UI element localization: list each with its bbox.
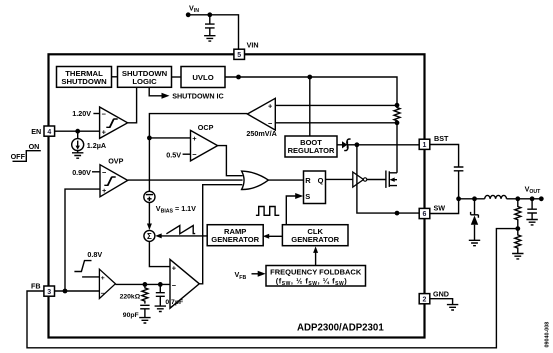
ground input cap — [204, 36, 215, 41]
wire EN pin to comparator plus — [55, 130, 100, 132]
svg-text:R: R — [305, 176, 311, 185]
wire pin1 to bootstrap cap — [430, 145, 459, 168]
block THERMAL SHUTDOWN — [57, 67, 112, 88]
ground output cap — [526, 220, 537, 225]
wire inductor to VOUT — [507, 198, 542, 200]
svg-text:UVLO: UVLO — [192, 73, 213, 82]
wire OR output to R input — [268, 179, 303, 181]
junction feedback divider tap top — [515, 196, 520, 201]
wire logic-UVLO connector — [172, 76, 182, 78]
capacitor input bypass — [205, 15, 215, 36]
wire VIN terminal to pin 5 — [188, 15, 238, 49]
svg-text:5: 5 — [237, 52, 241, 59]
resistor divider bottom — [515, 229, 521, 254]
op-amp OVP comparator — [100, 165, 128, 197]
resistor divider top — [515, 199, 521, 228]
wire OCP plus input — [149, 137, 190, 139]
svg-text:−: − — [172, 281, 177, 290]
ground schottky diode — [469, 240, 480, 245]
resistor 220k — [142, 284, 148, 303]
svg-text:6: 6 — [423, 211, 427, 218]
node VOUT terminal — [539, 196, 544, 201]
svg-text:+: + — [192, 134, 197, 143]
ground GND pin — [447, 305, 458, 310]
wire driver bootstrap rail — [357, 145, 419, 213]
wire ramp generator arrow into summer — [155, 233, 208, 238]
wire OCP output to OR gate — [218, 146, 243, 176]
junction pin5 rail — [236, 75, 241, 80]
junction diode tap — [472, 196, 477, 201]
wire pin6 to SW node — [430, 199, 459, 214]
wire OVP output to OR gate — [128, 179, 243, 181]
wire sense amp minus input — [275, 122, 397, 124]
svg-text:SHUTDOWN: SHUTDOWN — [61, 77, 107, 86]
svg-text:FB: FB — [31, 281, 41, 290]
svg-text:220kΩ: 220kΩ — [120, 293, 141, 300]
wire VIN internal rail — [225, 77, 397, 105]
wire shutdown-ic arrow — [149, 87, 169, 99]
junction input cap tap — [207, 12, 212, 17]
gate OR (3-input) — [242, 171, 269, 189]
wire error amp output to PWM minus — [115, 283, 170, 285]
ground 90pF — [139, 318, 150, 323]
wire EN comparator output to shutdown logic — [128, 87, 137, 123]
svg-text:4: 4 — [47, 129, 51, 136]
svg-text:REGULATOR: REGULATOR — [288, 146, 335, 155]
buffer gate driver — [353, 172, 367, 187]
svg-text:0.90V: 0.90V — [72, 168, 91, 177]
pin 3 FB — [44, 286, 55, 296]
svg-text:GENERATOR: GENERATOR — [211, 235, 259, 244]
junction MOSFET source to SW — [395, 211, 400, 216]
svg-text:1.20V: 1.20V — [72, 109, 91, 118]
svg-text:Σ: Σ — [147, 232, 152, 241]
wire sense amp output to OCP plus — [149, 114, 247, 192]
svg-text:0.5V: 0.5V — [166, 150, 181, 159]
junction OCP plus tap — [147, 136, 152, 141]
current source 1.2uA — [72, 133, 84, 153]
capacitor 90pF — [140, 305, 149, 317]
svg-text:SHUTDOWN IC: SHUTDOWN IC — [172, 91, 224, 100]
node VIN input terminal — [186, 12, 191, 17]
wire SW rail to inductor — [459, 198, 485, 200]
wire thermal-logic connector — [112, 76, 118, 78]
switch off-on step glyph — [13, 151, 41, 162]
wire 0.90V to OVP minus — [92, 171, 100, 173]
capacitor bootstrap — [454, 167, 464, 199]
pin 5 VIN — [234, 49, 245, 59]
block SHUTDOWN LOGIC — [118, 67, 172, 88]
wire BST rail to pin 1 — [357, 144, 419, 146]
wire VFB arrow to foldback — [252, 271, 266, 277]
svg-text:0.7pF: 0.7pF — [165, 299, 183, 306]
pin 1 BST — [419, 139, 430, 149]
block FREQUENCY FOLDBACK — [266, 266, 366, 288]
wire sense line down to MOSFET drain — [396, 123, 398, 173]
ground 0.7pF — [155, 306, 166, 311]
pin 2 GND — [419, 294, 430, 304]
svg-text:+: + — [172, 263, 177, 272]
wire pin2 to ground — [430, 299, 453, 305]
wire 0.5V to OCP minus — [183, 153, 191, 155]
wire 1.20V to EN comparator — [93, 113, 99, 115]
inductor output — [485, 195, 507, 198]
IC boundary ADP2300/ADP2301 — [49, 54, 425, 337]
block RAMP GENERATOR — [207, 225, 263, 246]
wire FB pin to error amp minus — [55, 290, 100, 292]
svg-text:OCP: OCP — [198, 123, 214, 132]
capacitor 0.7pF — [156, 284, 165, 306]
block CLK GENERATOR — [282, 225, 348, 246]
wire FB to OVP plus — [65, 189, 100, 291]
svg-text:LOGIC: LOGIC — [132, 77, 157, 86]
svg-text:−: − — [101, 290, 105, 297]
wire foldback to CLK arrow — [313, 246, 318, 265]
op-amp EN comparator — [100, 107, 128, 138]
wire soft-start to error amp plus — [82, 276, 99, 278]
wire CLK to S input — [286, 193, 303, 225]
wire PWM output to OR gate — [199, 185, 242, 284]
junction 0.7pF branch — [158, 282, 163, 287]
junction 1.2uA tap — [75, 129, 80, 134]
svg-text:−: − — [102, 168, 107, 177]
svg-text:ON: ON — [29, 142, 40, 151]
svg-text:1: 1 — [423, 142, 427, 149]
svg-text:+: + — [102, 128, 107, 137]
svg-text:90pF: 90pF — [123, 312, 139, 319]
junction boot-reg rail — [307, 75, 312, 80]
svg-text:2: 2 — [423, 296, 427, 303]
svg-text:OFF: OFF — [11, 152, 26, 161]
svg-text:GENERATOR: GENERATOR — [291, 235, 339, 244]
svg-text:09040-008: 09040-008 — [545, 322, 551, 348]
svg-text:OVP: OVP — [108, 157, 123, 166]
junction BST driver rail — [355, 142, 360, 147]
wire CLK to RAMP arrow — [263, 234, 283, 239]
svg-text:+: + — [101, 275, 105, 282]
diode catch schottky — [471, 199, 479, 241]
op-amp OCP comparator — [191, 130, 218, 161]
svg-text:EN: EN — [31, 127, 41, 136]
svg-text:GND: GND — [433, 289, 449, 298]
diode boot switch — [337, 139, 357, 151]
junction SW bootstrap node — [456, 196, 461, 201]
svg-text:BST: BST — [434, 134, 449, 143]
junction sense resistor top — [395, 103, 400, 108]
svg-text:−: − — [102, 110, 107, 119]
waveform sawtooth ramp — [166, 226, 195, 234]
svg-text:0.8V: 0.8V — [87, 250, 102, 259]
pin 6 SW — [419, 208, 430, 218]
block BOOT REGULATOR — [285, 77, 337, 157]
junction output cap tap — [530, 196, 535, 201]
wire driver output to gate — [367, 179, 386, 181]
svg-text:ADP2300/ADP2301: ADP2300/ADP2301 — [297, 323, 384, 334]
wire sense amp plus input — [275, 104, 397, 106]
wire summer to PWM comparator plus — [149, 241, 170, 266]
op-amp current sense 250mV/A — [247, 98, 275, 130]
svg-text:1.2µA: 1.2µA — [87, 141, 106, 150]
svg-text:FREQUENCY FOLDBACK: FREQUENCY FOLDBACK — [270, 267, 362, 276]
svg-text:S: S — [305, 192, 310, 201]
ground divider bottom — [512, 254, 523, 259]
svg-text:−: − — [192, 150, 197, 159]
waveform clock pulses — [256, 207, 279, 216]
block UVLO — [181, 67, 225, 88]
wire VBIAS arrow into summer — [147, 203, 152, 231]
svg-text:250mV/A: 250mV/A — [246, 129, 276, 138]
ground 1.2uA source — [72, 153, 83, 158]
op-amp PWM comparator — [170, 259, 199, 308]
junction 220k branch — [143, 282, 148, 287]
pin 4 EN — [44, 126, 55, 136]
transistor power MOSFET — [386, 171, 397, 188]
svg-text:3: 3 — [47, 289, 51, 296]
svg-text:−: − — [268, 119, 273, 128]
capacitor output — [527, 199, 537, 220]
voltage source VBIAS — [144, 191, 155, 202]
junction FB-OVP branch — [63, 289, 68, 294]
svg-text:+: + — [268, 102, 273, 111]
wire Q output to driver — [326, 178, 353, 180]
svg-text:SW: SW — [434, 204, 446, 213]
waveform soft-start ramp glyph — [74, 261, 91, 272]
resistor sense (high-side) — [394, 105, 400, 122]
svg-text:Q: Q — [318, 176, 324, 185]
node summer sigma — [144, 230, 155, 241]
flip-flop RS latch — [304, 171, 326, 204]
junction divider tap — [515, 226, 520, 231]
svg-text:+: + — [102, 186, 107, 195]
wire feedback trace to FB pin — [27, 229, 518, 348]
op-amp error amplifier — [99, 269, 115, 298]
junction sense resistor bottom — [395, 120, 400, 125]
svg-text:VIN: VIN — [247, 41, 259, 50]
